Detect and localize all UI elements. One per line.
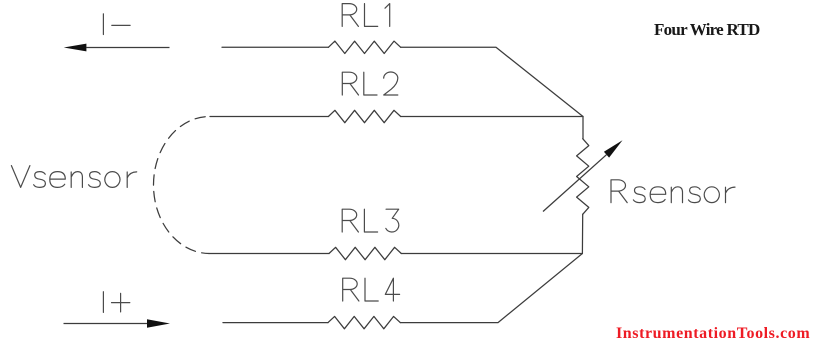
label RL4 [343, 278, 359, 301]
label RL1 [342, 4, 358, 27]
resistor RL1 [328, 41, 400, 53]
label I+ [102, 292, 104, 313]
label Vsensor [11, 166, 30, 188]
label Rsensor [611, 180, 627, 203]
wire: node down to Rsensor [582, 117, 584, 139]
wire: Rsensor down to bottom node [581, 214, 583, 253]
resistor RL4 [328, 316, 400, 328]
arrow I- (current out, pointing left) [86, 47, 169, 49]
wire: RL1 top lead [222, 46, 328, 48]
resistor Rsensor (variable) [577, 139, 589, 215]
arrow I+ (current in, pointing right) [64, 323, 148, 325]
resistor RL3 [329, 247, 401, 259]
wire: RL4 right lead + diagonal up to bottom node [400, 254, 582, 323]
wire: RL3 right lead to bottom node [401, 253, 582, 255]
wire: RL4 left lead [223, 322, 328, 324]
label RL2 [342, 72, 358, 95]
wire: RL3 left lead [209, 253, 329, 255]
label RL3 [342, 209, 358, 232]
arrow through Rsensor (variable symbol) [543, 155, 607, 212]
label I- [102, 14, 104, 35]
wire: RL1 right lead + diagonal to node [401, 47, 583, 116]
wire: RL2 left lead [210, 116, 328, 118]
resistor RL2 [328, 110, 400, 122]
wire: Vsensor dashed arc [153, 116, 210, 253]
watermark: InstrumentationTools.com [616, 325, 810, 343]
title: Four Wire RTD [654, 20, 760, 40]
wire: RL2 right lead to node [401, 116, 583, 118]
